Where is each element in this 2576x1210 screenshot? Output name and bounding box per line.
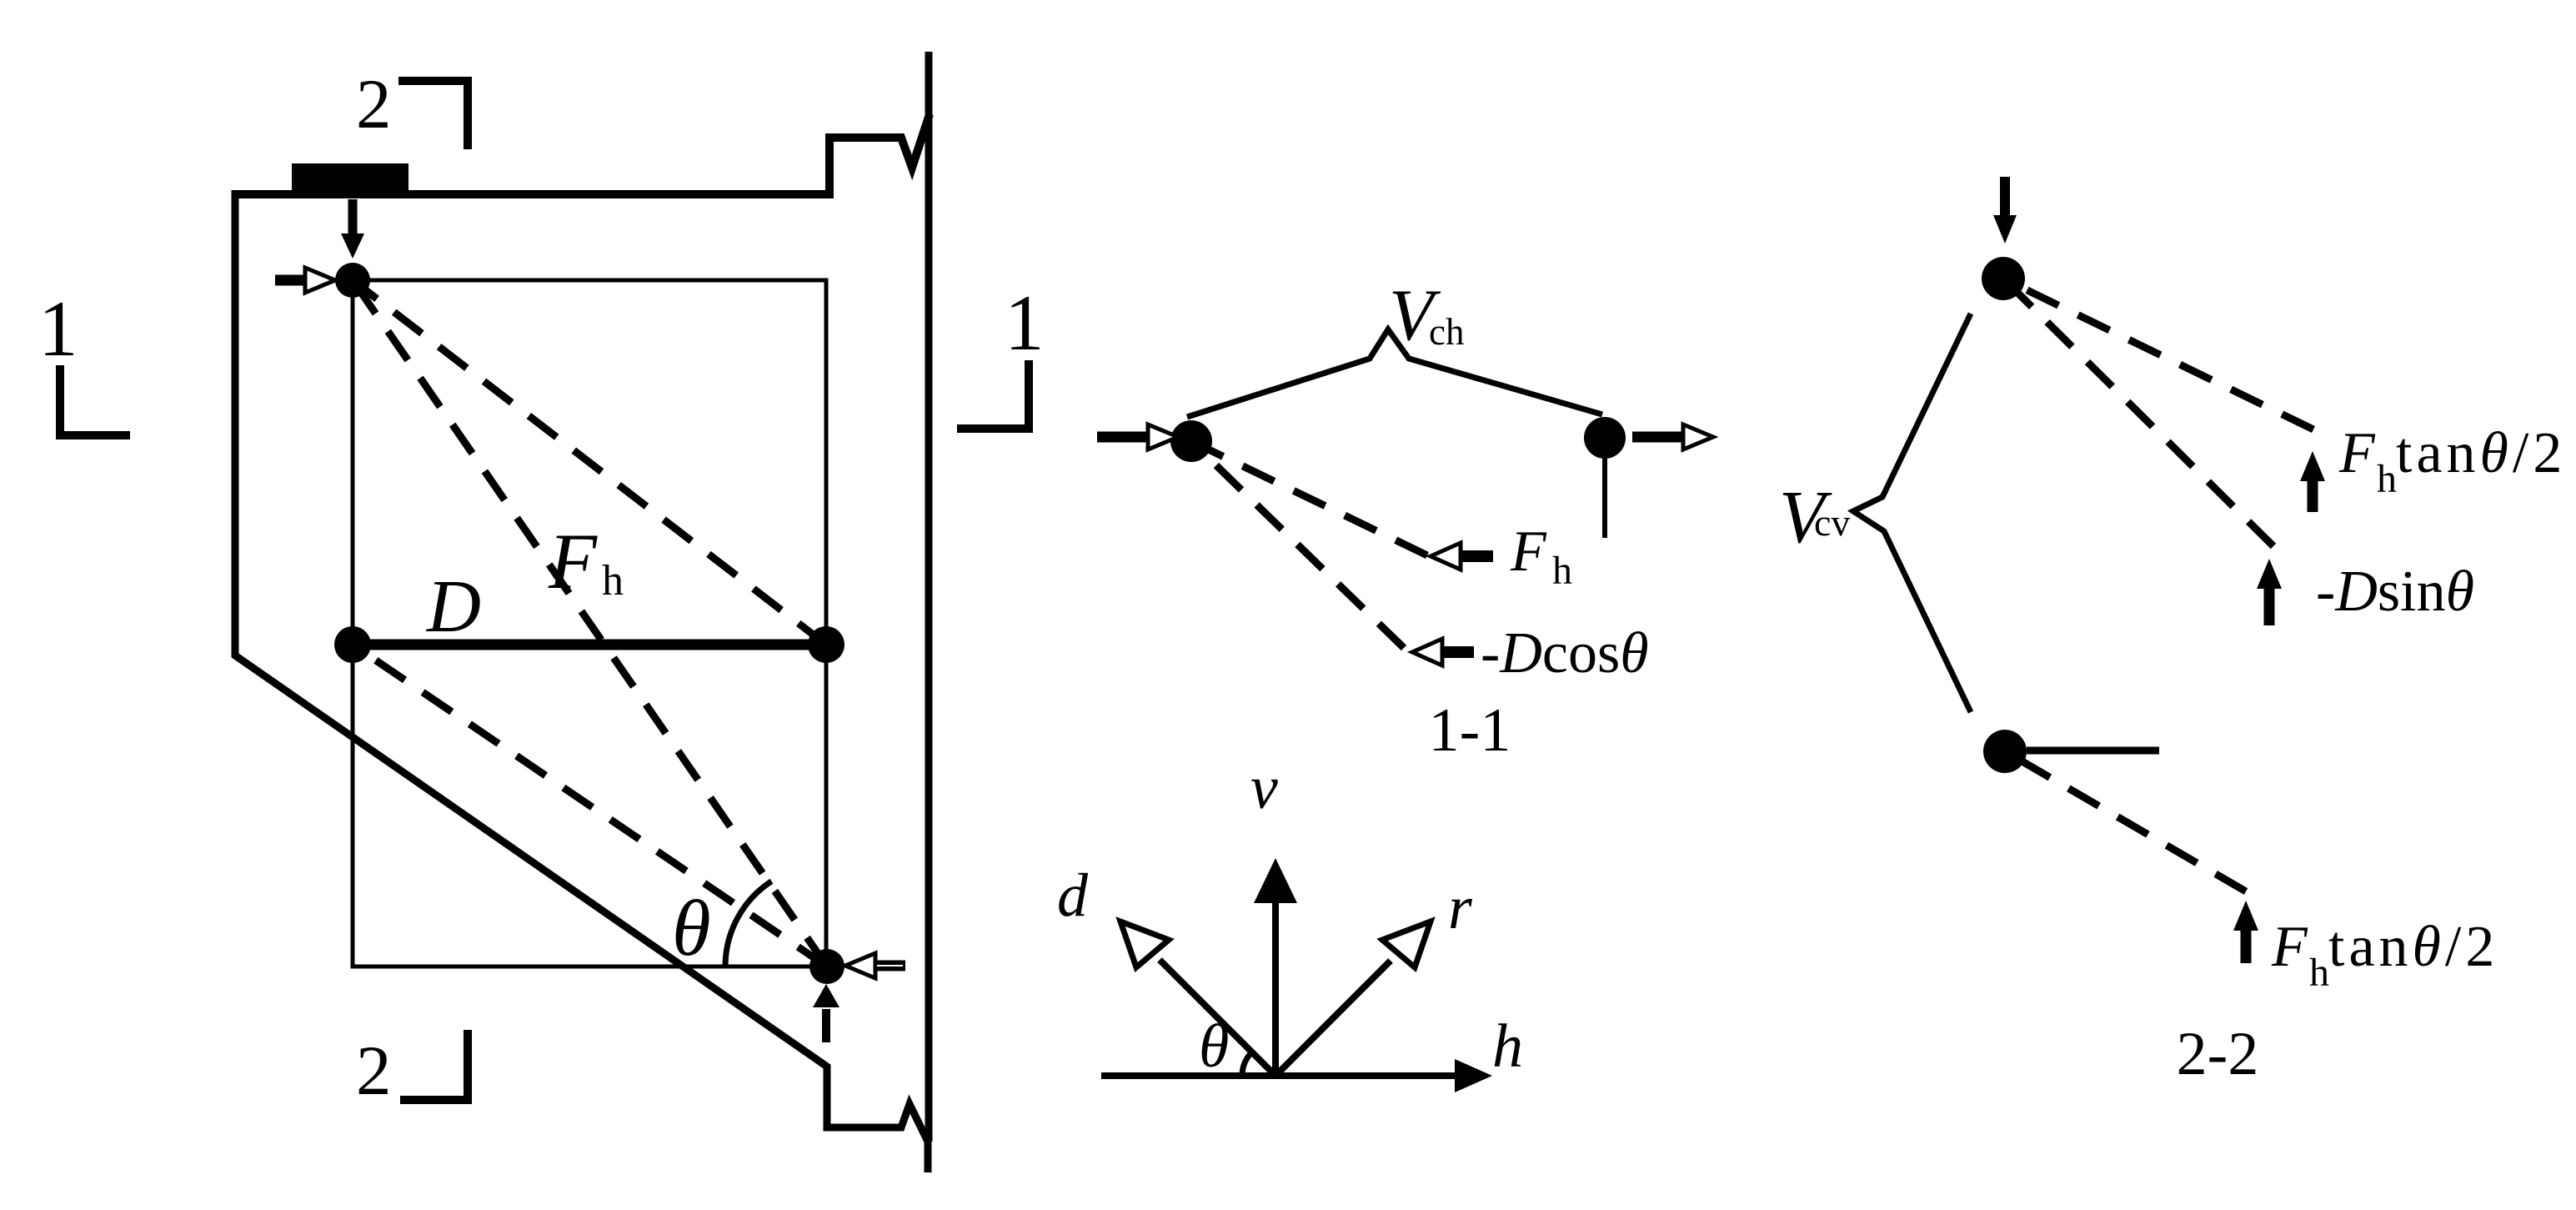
svg-text:2: 2 (356, 1032, 392, 1110)
svg-text:-Dsinθ: -Dsinθ (2316, 560, 2474, 624)
svg-text:F: F (2338, 421, 2376, 485)
svg-text:h: h (2377, 457, 2397, 501)
svg-text:h: h (602, 557, 624, 605)
svg-text:F: F (548, 517, 598, 605)
svg-text:d: d (1057, 861, 1089, 930)
svg-text:v: v (1250, 754, 1278, 822)
svg-text:h: h (1492, 1012, 1523, 1081)
svg-text:θ: θ (672, 884, 711, 972)
svg-text:cv: cv (1814, 501, 1850, 544)
svg-text:ch: ch (1429, 311, 1464, 353)
svg-text:2: 2 (356, 65, 392, 143)
svg-text:F: F (1510, 520, 1547, 584)
svg-text:1: 1 (38, 284, 78, 373)
svg-text:-Dcosθ: -Dcosθ (1481, 621, 1649, 685)
svg-text:tanθ/2: tanθ/2 (2396, 421, 2566, 485)
svg-text:F: F (2271, 915, 2308, 979)
svg-text:1-1: 1-1 (1429, 696, 1511, 765)
svg-text:D: D (425, 565, 481, 648)
svg-text:1: 1 (1005, 279, 1045, 367)
svg-text:h: h (2309, 951, 2329, 995)
svg-text:2-2: 2-2 (2177, 1020, 2259, 1088)
svg-text:h: h (1552, 549, 1572, 593)
svg-text:tanθ/2: tanθ/2 (2328, 915, 2498, 979)
svg-text:r: r (1448, 874, 1473, 942)
svg-text:θ: θ (1199, 1012, 1229, 1081)
